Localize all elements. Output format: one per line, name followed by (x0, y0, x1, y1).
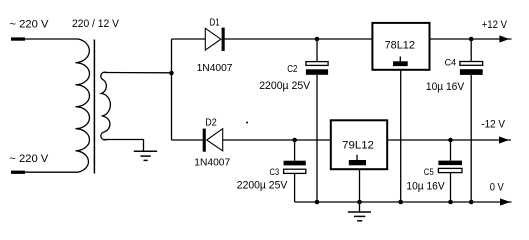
svg-text:C5: C5 (424, 167, 434, 178)
svg-text:D2: D2 (205, 116, 217, 128)
svg-text:10µ 16V: 10µ 16V (426, 81, 465, 93)
svg-text:1N4007: 1N4007 (197, 62, 233, 74)
svg-text:10µ 16V: 10µ 16V (406, 181, 445, 193)
svg-text:~ 220 V: ~ 220 V (9, 153, 49, 165)
svg-text:C4: C4 (445, 58, 457, 69)
svg-text:78L12: 78L12 (385, 40, 415, 52)
svg-text:C2: C2 (287, 64, 298, 75)
svg-text:2200µ 25V: 2200µ 25V (259, 80, 311, 92)
svg-text:C3: C3 (270, 167, 280, 178)
svg-text:~ 220 V: ~ 220 V (10, 19, 50, 31)
svg-text:+12 V: +12 V (482, 19, 508, 31)
svg-text:0 V: 0 V (490, 182, 505, 194)
svg-text:2200µ 25V: 2200µ 25V (237, 180, 288, 192)
svg-text:-12 V: -12 V (481, 119, 505, 131)
svg-text:D1: D1 (210, 16, 220, 28)
svg-text:1N4007: 1N4007 (194, 156, 230, 168)
svg-text:220 / 12 V: 220 / 12 V (72, 18, 120, 30)
svg-text:79L12: 79L12 (342, 140, 374, 152)
